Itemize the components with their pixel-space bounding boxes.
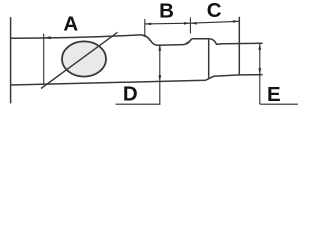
svg-text:A: A — [63, 12, 78, 35]
svg-text:D: D — [123, 83, 138, 106]
svg-text:C: C — [207, 0, 222, 22]
svg-text:B: B — [159, 0, 174, 23]
svg-text:E: E — [267, 83, 281, 106]
